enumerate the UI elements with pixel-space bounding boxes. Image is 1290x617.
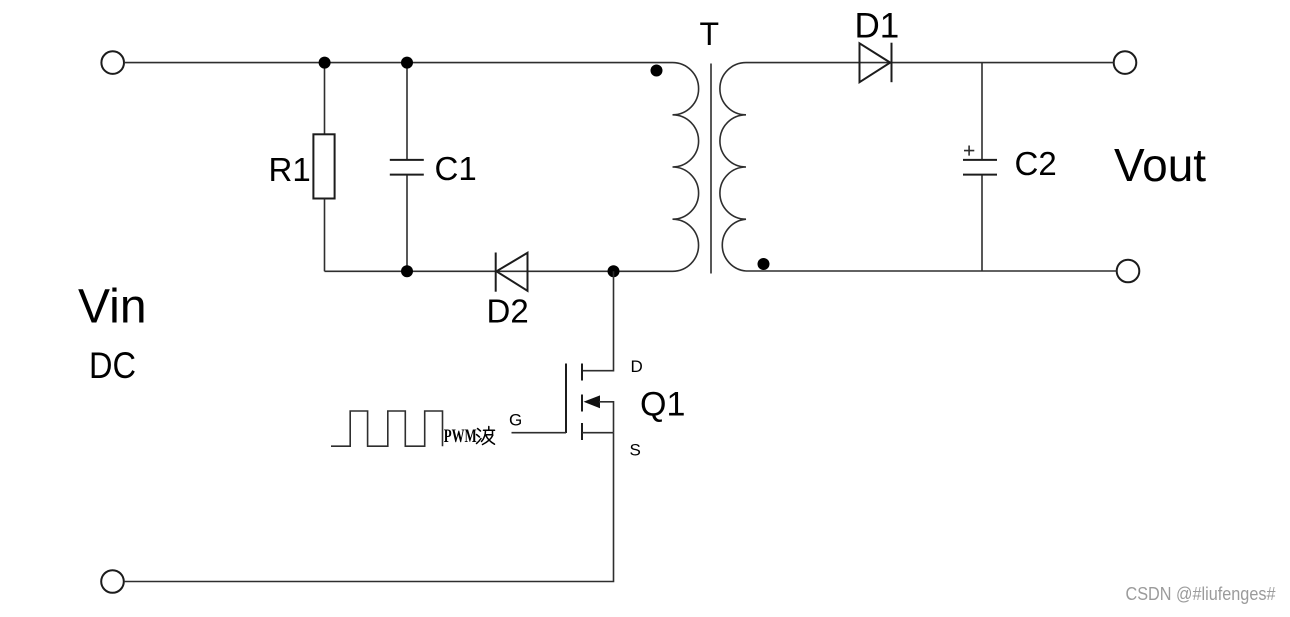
svg-text:Q1: Q1 (640, 386, 685, 424)
svg-text:PWM: PWM (444, 426, 477, 447)
svg-text:CSDN @#liufenges#: CSDN @#liufenges# (1126, 583, 1277, 604)
svg-text:D2: D2 (487, 293, 529, 330)
svg-text:G: G (509, 411, 522, 430)
svg-text:Vout: Vout (1114, 139, 1206, 191)
svg-text:T: T (700, 16, 720, 52)
svg-text:C1: C1 (435, 150, 477, 187)
svg-text:C2: C2 (1015, 145, 1057, 182)
svg-text:S: S (630, 441, 641, 460)
svg-text:Vin: Vin (78, 281, 147, 334)
svg-text:DC: DC (89, 345, 136, 386)
svg-text:R1: R1 (269, 151, 311, 188)
svg-text:D1: D1 (855, 7, 900, 46)
svg-text:D: D (631, 357, 643, 376)
